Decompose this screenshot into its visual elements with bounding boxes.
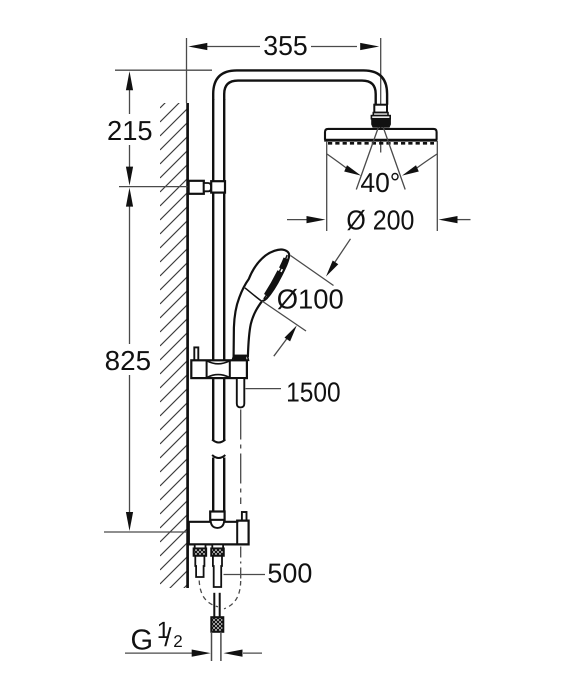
hose connector below holder [237,378,245,407]
hose loop right dash-dot line [240,547,242,581]
hose loop left dashed arc [199,581,218,607]
O100 extension line lower [262,301,306,331]
right outlet shaft [213,556,222,587]
svg-text:G: G [131,624,154,656]
connector flange [371,116,390,119]
hand shower head outline [234,250,290,356]
riser pipe upper segment [212,99,214,182]
hand shower handle bottom band [234,355,247,360]
spray line right [383,128,405,190]
extension line wall top (355 left) [186,38,188,103]
dimension 355 arrows [188,43,207,50]
dimension 215 line [129,89,131,114]
diverter knob [242,512,247,521]
G 1/2 dimension line right [243,652,262,654]
extension line 215 top (pipe top level) [115,69,212,71]
spray line left [356,128,378,190]
O100 leader upper with arrow [333,239,351,265]
extension line 215/825 (wall bracket level) [119,186,188,188]
dimension 825 line [129,206,131,344]
left outlet shaft [195,556,204,577]
O100 leader lower with arrow [274,339,287,357]
hand shower face dark crescent lower [266,271,280,295]
svg-text:2: 2 [173,632,182,651]
right outlet nut [212,544,223,548]
connector black band [371,119,391,128]
supply hose upper tube [213,593,215,617]
supply hose nut (knurled) [211,617,223,632]
pipe break symbol [212,440,225,443]
svg-text:500: 500 [267,557,312,588]
dimension 215 arrows [126,71,133,90]
riser pipe below holder [212,378,214,440]
hand shower handle cone into holder [232,356,248,360]
svg-text:/: / [164,622,172,652]
top pipe run and elbows [213,70,387,104]
riser pipe lowest segment [212,458,214,512]
hand shower face inner line [264,255,287,299]
svg-text:1500: 1500 [286,377,341,408]
holder waist curves [208,361,230,377]
40-degree leader left [327,154,352,173]
supply hose lower tube [211,632,213,661]
dimension O200 line right [455,219,471,221]
extension line 825 bottom (block level) [104,531,187,533]
svg-text:355: 355 [263,30,308,61]
wall line [186,103,189,588]
shower head rim (thick bottom line) [324,139,437,142]
shower head (rain) body [325,129,437,140]
holder body [191,360,247,378]
40-degree leader right [411,154,437,173]
O100 extension line upper [291,256,334,286]
extension line O200 right [436,141,438,231]
hose loop right dashed arc [224,581,241,609]
1500 leader line [246,388,282,390]
dimension O200 line left [287,219,309,221]
extension line 355 right / head centerline [380,38,382,153]
svg-text:215: 215 [107,115,153,146]
svg-text:Ø 200: Ø 200 [346,204,414,235]
svg-text:Ø100: Ø100 [277,284,344,315]
hose centerline from hand shower to diverter [240,410,242,505]
riser end cap [210,512,224,520]
G 1/2 dimension line left [125,652,193,654]
svg-text:40°: 40° [360,167,400,198]
left outlet nut [195,544,206,548]
diverter block [189,521,249,545]
dimension 355 line [207,46,260,48]
wall bracket upper [189,181,204,194]
holder lock lever [194,347,198,360]
riser collar at bracket [211,181,225,192]
500 leader line [224,574,266,576]
extension line O200 left [326,141,328,231]
hand shower handle dark band in holder [233,355,246,360]
shower head nozzle dashes [328,142,434,145]
riser end dome inside block [211,520,225,528]
dimension 825 arrows [126,188,133,207]
hand shower neck line [245,288,261,301]
shower arm connector nut [374,105,387,113]
svg-text:825: 825 [105,345,151,376]
hand shower face dark crescent upper [281,258,286,268]
riser pipe mid segment [212,193,214,361]
